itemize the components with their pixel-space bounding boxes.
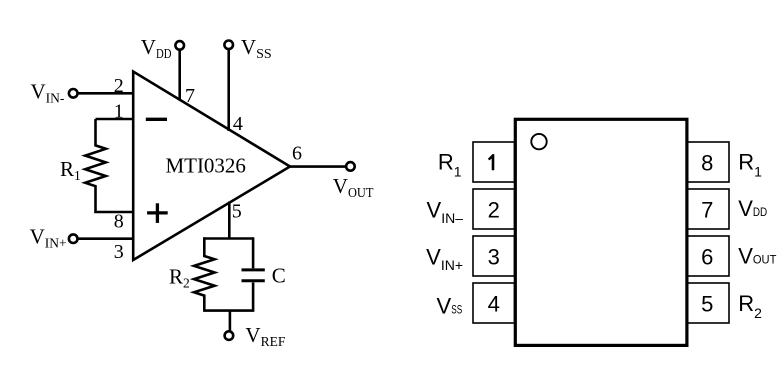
svg-text:8: 8 bbox=[114, 211, 124, 233]
svg-text:7: 7 bbox=[701, 198, 713, 223]
svg-text:6: 6 bbox=[701, 245, 713, 270]
svg-text:R2: R2 bbox=[738, 291, 762, 321]
svg-text:7: 7 bbox=[185, 85, 195, 107]
svg-text:VIN-: VIN- bbox=[31, 80, 65, 106]
svg-text:MTI0326: MTI0326 bbox=[165, 154, 246, 178]
svg-text:VREF: VREF bbox=[245, 323, 285, 349]
svg-text:3: 3 bbox=[114, 241, 124, 263]
svg-text:6: 6 bbox=[292, 143, 302, 165]
svg-text:3: 3 bbox=[488, 245, 500, 270]
svg-text:VOUT: VOUT bbox=[738, 243, 777, 268]
svg-text:5: 5 bbox=[232, 201, 242, 223]
svg-text:1: 1 bbox=[114, 101, 124, 123]
svg-text:VIN+: VIN+ bbox=[30, 225, 67, 251]
svg-text:VDD: VDD bbox=[141, 35, 172, 62]
svg-text:VSS: VSS bbox=[241, 35, 272, 62]
svg-text:8: 8 bbox=[701, 151, 713, 176]
svg-text:VIN–: VIN– bbox=[427, 198, 464, 227]
svg-text:R1: R1 bbox=[438, 150, 462, 180]
svg-text:VSS: VSS bbox=[437, 293, 463, 318]
svg-text:C: C bbox=[272, 264, 286, 288]
svg-text:VOUT: VOUT bbox=[333, 174, 374, 200]
svg-text:2: 2 bbox=[114, 75, 124, 97]
svg-text:5: 5 bbox=[701, 292, 713, 317]
svg-text:2: 2 bbox=[488, 198, 500, 223]
svg-text:R1: R1 bbox=[60, 157, 81, 183]
svg-text:R2: R2 bbox=[169, 264, 190, 290]
svg-text:VDD: VDD bbox=[738, 196, 767, 221]
svg-text:4: 4 bbox=[488, 292, 500, 317]
svg-text:4: 4 bbox=[233, 113, 243, 135]
svg-text:R1: R1 bbox=[738, 150, 762, 180]
svg-text:VIN+: VIN+ bbox=[426, 245, 463, 274]
